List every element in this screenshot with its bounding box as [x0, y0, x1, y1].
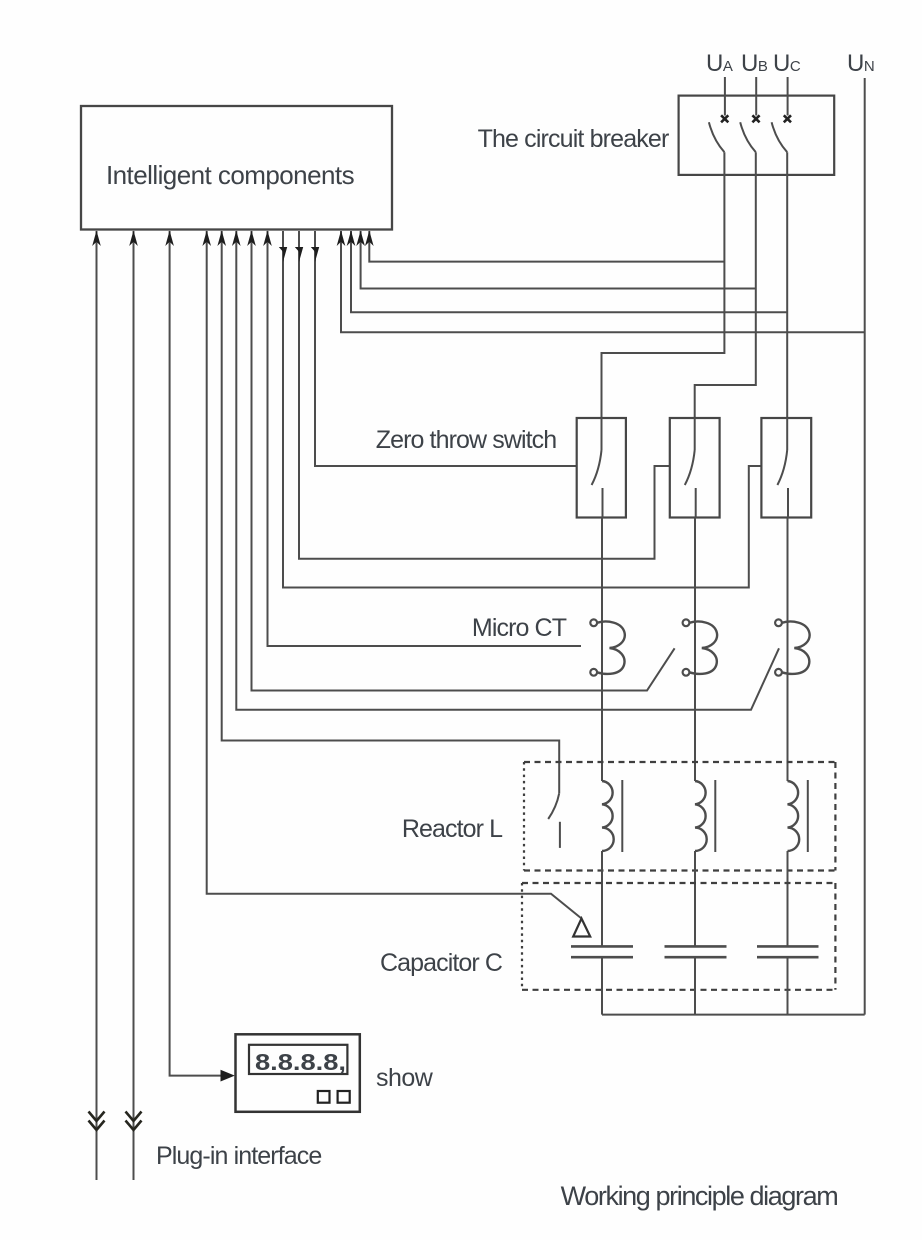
- svg-text:Working principle diagram: Working principle diagram: [561, 1181, 838, 1211]
- breaker pole C: stub, contact X, blade: [772, 77, 791, 152]
- svg-text:UN: UN: [847, 50, 874, 77]
- svg-text:show: show: [376, 1064, 434, 1092]
- svg-text:Micro CT: Micro CT: [472, 614, 567, 642]
- wire: phase B switch2 to reactor coil 2: [694, 518, 696, 781]
- wire: reactor switch control line: [217, 231, 559, 794]
- zero throw switch S1 box: [577, 418, 626, 518]
- reactor L3 coil and core: [788, 780, 808, 852]
- breaker pole A: stub, contact X, blade: [709, 77, 728, 152]
- capacitor C2 plates: [665, 946, 727, 1014]
- wire: reactor 1 to capacitor 1: [601, 851, 603, 946]
- wire: switch 1 control line (down arrow): [311, 231, 577, 466]
- wire: reactor 2 to capacitor 2: [694, 851, 696, 946]
- wire: switch 3 control line (down arrow): [279, 231, 762, 588]
- wire: phase A switch1 to reactor coil 1: [601, 518, 603, 781]
- discharge triangle marker: [573, 919, 590, 937]
- svg-text:8.8.8.8,: 8.8.8.8,: [255, 1049, 346, 1075]
- wire: plug-in interface line 2 (with up arrow and chevrons): [126, 231, 142, 1181]
- zero throw switch S3 box: [761, 418, 811, 518]
- wire: reactor 3 to capacitor 3: [787, 851, 789, 946]
- zero throw switch S2 box: [670, 418, 720, 518]
- current transformer CT2: [683, 619, 718, 675]
- wire: UA voltage sense to intelligent components: [365, 231, 724, 262]
- display unit box: [236, 1034, 360, 1112]
- capacitor dashed enclosure: [522, 883, 835, 990]
- wire: display feed line (up arrow at box, right arrow into display): [165, 231, 235, 1082]
- wire: phase C from breaker to switch 3: [786, 152, 788, 418]
- breaker pole B: stub, contact X, blade: [740, 77, 759, 152]
- svg-text:Intelligent components: Intelligent components: [106, 160, 355, 190]
- wire: neutral UN down right side: [864, 78, 866, 1015]
- reactor switch blade: [548, 793, 559, 819]
- wire: UC voltage sense to intelligent components: [347, 231, 788, 313]
- wire: CT1 secondary line: [263, 231, 581, 647]
- svg-text:Capacitor C: Capacitor C: [380, 949, 503, 977]
- wire: UB voltage sense to intelligent components: [356, 231, 756, 289]
- wire: phase A from breaker with jog to switch 1: [602, 152, 725, 418]
- wire: phase C switch3 to reactor coil 3: [787, 518, 789, 781]
- wire: UN voltage sense to intelligent components: [337, 231, 865, 333]
- reactor dashed enclosure: [524, 762, 835, 871]
- circuit breaker box QF: [679, 96, 835, 175]
- wire: neutral bus joining capacitors to UN: [602, 1014, 865, 1016]
- capacitor C1 plates: [571, 946, 633, 1014]
- svg-text:Reactor L: Reactor L: [402, 815, 503, 843]
- svg-text:The circuit breaker: The circuit breaker: [478, 125, 669, 153]
- reactor L1 coil and core: [602, 780, 622, 852]
- wire: plug-in interface line 1 (with up arrow and chevrons): [89, 231, 105, 1181]
- svg-text:UB: UB: [741, 50, 768, 77]
- svg-text:Zero throw switch: Zero throw switch: [376, 426, 557, 454]
- wire: phase B from breaker with jog to switch 2: [695, 152, 756, 418]
- svg-text:UC: UC: [773, 50, 801, 77]
- svg-text:UA: UA: [706, 50, 733, 77]
- current transformer CT3: [775, 619, 810, 675]
- svg-text:Plug-in interface: Plug-in interface: [156, 1142, 321, 1170]
- wire: CT2 secondary line with diagonal: [247, 231, 674, 691]
- reactor switch lower contact: [559, 822, 561, 848]
- wire: switch 2 control line (down arrow): [295, 231, 670, 559]
- current transformer CT1: [590, 619, 625, 675]
- wire: capacitor discharge sense line to triangle: [202, 231, 581, 919]
- capacitor C3 plates: [757, 946, 819, 1014]
- wire: CT3 secondary line with diagonal: [232, 231, 779, 710]
- intelligent components box U1: [81, 106, 392, 230]
- reactor L2 coil and core: [695, 780, 715, 852]
